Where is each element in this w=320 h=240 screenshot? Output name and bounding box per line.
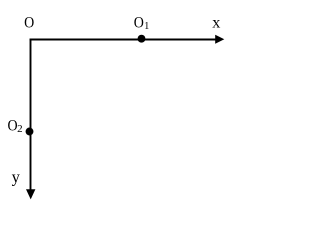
node O2 dot <box>26 128 34 136</box>
x-axis arrowhead <box>215 35 224 44</box>
svg-text:1: 1 <box>144 21 149 32</box>
svg-text:O: O <box>134 15 144 32</box>
svg-text:x: x <box>212 14 220 32</box>
svg-text:2: 2 <box>17 123 23 135</box>
y-axis arrowhead <box>26 189 35 199</box>
svg-text:O: O <box>24 15 34 32</box>
svg-text:y: y <box>12 168 21 187</box>
x-axis wire <box>30 39 217 41</box>
y-axis wire <box>30 39 32 191</box>
node O1 dot <box>138 35 146 43</box>
